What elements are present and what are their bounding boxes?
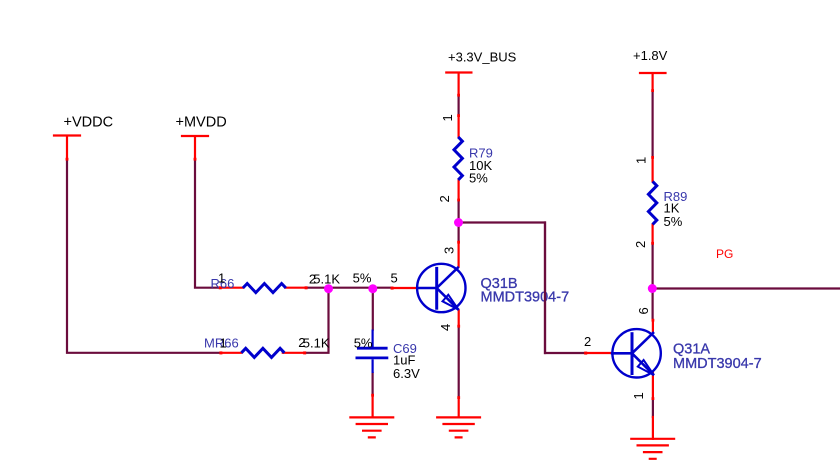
svg-text:1: 1 <box>634 157 649 164</box>
svg-text:2: 2 <box>298 335 305 350</box>
svg-text:1: 1 <box>631 392 646 399</box>
svg-text:5%: 5% <box>353 271 372 286</box>
svg-text:+MVDD: +MVDD <box>176 114 227 130</box>
svg-text:2: 2 <box>633 241 648 248</box>
svg-text:6.3V: 6.3V <box>393 366 420 381</box>
svg-text:5%: 5% <box>664 214 683 229</box>
svg-text:1: 1 <box>218 271 225 286</box>
svg-text:1: 1 <box>440 114 455 121</box>
svg-text:4: 4 <box>438 324 453 331</box>
svg-text:3: 3 <box>442 247 457 254</box>
svg-text:5.1K: 5.1K <box>303 336 330 351</box>
svg-text:6: 6 <box>636 307 651 314</box>
svg-text:5%: 5% <box>354 336 373 351</box>
svg-text:5: 5 <box>391 271 398 286</box>
svg-text:1: 1 <box>220 336 227 351</box>
svg-text:5%: 5% <box>469 171 488 186</box>
svg-text:+1.8V: +1.8V <box>633 48 668 63</box>
svg-text:2: 2 <box>584 334 591 349</box>
svg-text:5.1K: 5.1K <box>313 272 340 287</box>
svg-text:MMDT3904-7: MMDT3904-7 <box>673 356 762 372</box>
svg-text:MMDT3904-7: MMDT3904-7 <box>481 289 570 305</box>
svg-text:2: 2 <box>309 272 316 287</box>
svg-text:2: 2 <box>437 195 452 202</box>
svg-text:+VDDC: +VDDC <box>64 114 114 130</box>
svg-text:+3.3V_BUS: +3.3V_BUS <box>448 50 517 65</box>
svg-text:PG: PG <box>716 247 733 261</box>
